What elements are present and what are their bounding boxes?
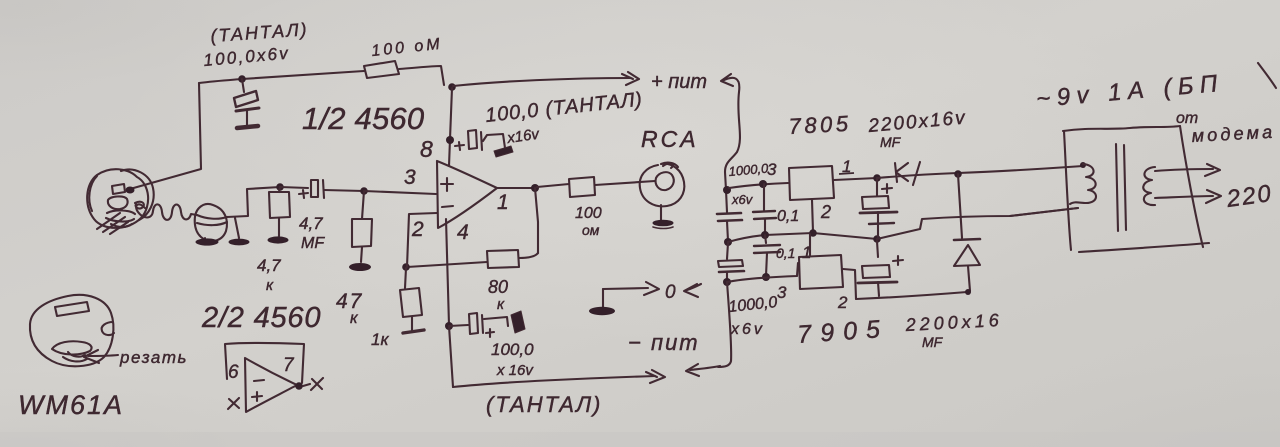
svg-text:100: 100 xyxy=(575,205,602,222)
svg-text:100,0: 100,0 xyxy=(491,340,534,359)
wire: left rail down to mic xyxy=(130,83,201,189)
svg-text:WM61A: WM61A xyxy=(18,390,124,420)
svg-text:0: 0 xyxy=(665,282,676,303)
capacitor C3 plates xyxy=(468,130,477,149)
mid rail xyxy=(728,233,877,242)
junction node xyxy=(276,183,284,191)
C4 bracket and bar xyxy=(484,317,508,326)
op-amp U1b (2/2 4560) box xyxy=(225,343,304,383)
WM61A side hook xyxy=(102,322,114,335)
capacitor C6 1000,0x6v (lower) plates xyxy=(727,243,728,259)
wire lower rail to 7905 pin3 xyxy=(727,263,798,282)
svg-text:от: от xyxy=(1176,110,1198,127)
ground stem 2 xyxy=(235,218,239,238)
junction node inverting xyxy=(402,263,410,271)
RCA stem and ground xyxy=(660,205,662,220)
resistor R2 4,7k xyxy=(279,187,280,192)
transformer box xyxy=(1064,131,1071,250)
svg-text:резать: резать xyxy=(119,348,188,367)
U1b plus sign xyxy=(252,392,262,401)
diode D1 "K|" on top rail xyxy=(895,163,908,182)
wire: opamp output xyxy=(497,187,533,189)
C4 plus mark xyxy=(486,329,494,337)
7805 pin2 wire down xyxy=(812,200,813,232)
junction node 0,1 top xyxy=(759,180,767,188)
svg-text:1: 1 xyxy=(802,243,811,262)
svg-text:ом: ом xyxy=(582,222,600,238)
left arrow from PSU to -pit rail xyxy=(690,366,720,370)
mic inner contacts xyxy=(112,184,125,194)
wire: input rail to 7805 xyxy=(729,183,788,188)
bottom PSU rail xyxy=(856,292,967,299)
twisted pair squiggle xyxy=(136,204,227,220)
secondary coil xyxy=(1143,167,1155,205)
wire cap to node xyxy=(324,190,364,191)
capacitor C9 2200x16 upper: stem and plus xyxy=(873,174,881,182)
wire: pin4 down to bottom rail xyxy=(446,219,449,325)
primary coil xyxy=(1080,162,1086,168)
mic inner scribble xyxy=(108,196,128,209)
svg-text:(ТАНТАЛ): (ТАНТАЛ) xyxy=(486,392,602,417)
junction node xyxy=(762,273,770,281)
svg-text:1к: 1к xyxy=(371,330,389,349)
wire resistor to RCA xyxy=(595,181,655,185)
stray stroke top right xyxy=(1258,63,1276,88)
wire node up to pin2 xyxy=(407,213,437,267)
regulator U3 7905 box xyxy=(799,255,843,289)
diode D2 vertical xyxy=(958,174,962,238)
svg-text:8: 8 xyxy=(420,136,433,162)
svg-text:к: к xyxy=(497,296,505,313)
svg-text:RCA: RCA xyxy=(641,126,699,152)
svg-text:х6v: х6v xyxy=(730,321,765,338)
wire: pin 8 vertical xyxy=(449,88,452,166)
resistor R1 100 oM (top) xyxy=(364,61,399,78)
resistor R3 47k xyxy=(362,191,364,219)
svg-text:0,1: 0,1 xyxy=(776,245,795,261)
resistor R5 80k xyxy=(487,250,519,268)
svg-text:+ пит: + пит xyxy=(651,71,707,93)
svg-text:МF: МF xyxy=(922,334,944,350)
junction nodes mid rail xyxy=(761,231,769,239)
svg-text:МF: МF xyxy=(301,235,325,252)
svg-text:7: 7 xyxy=(283,355,295,376)
svg-text:7805: 7805 xyxy=(788,111,852,139)
RCA jack outer xyxy=(640,163,685,207)
junction node pin4 rail xyxy=(445,322,453,330)
bottom rail to -pit arrow xyxy=(453,376,655,387)
U1b x mark at output xyxy=(303,384,310,386)
junction node mid rail left xyxy=(724,238,732,246)
resistor R4 100 om xyxy=(569,177,595,197)
C3 bracket to ground xyxy=(483,134,505,148)
PSU left rail upper xyxy=(726,190,727,212)
svg-text:4,7: 4,7 xyxy=(257,256,281,275)
top rail continues to transformer xyxy=(877,166,1083,178)
wire from connector to node xyxy=(227,187,280,217)
op-amp U1 (1/2 4560) triangle xyxy=(437,161,497,228)
WM61A bottom squiggle xyxy=(63,357,87,361)
capacitor C4 plates xyxy=(469,313,478,334)
junction node lower left xyxy=(723,278,731,286)
WM61A lower contact xyxy=(52,341,92,354)
U1b output node xyxy=(295,382,303,390)
svg-text:х 16v: х 16v xyxy=(496,362,534,379)
wire ground to 0 arrow xyxy=(603,288,648,289)
wire: +pit supply with arrow xyxy=(453,78,630,86)
junction node at pin8 rail xyxy=(448,83,456,91)
C10 plates xyxy=(862,265,890,278)
op-amp plus input sign xyxy=(441,178,453,191)
feedback: output down xyxy=(535,188,538,253)
svg-text:2: 2 xyxy=(837,293,848,312)
7905 pin2 wire right-down xyxy=(843,269,856,299)
wire: resistor to corner xyxy=(399,66,444,85)
svg-text:3: 3 xyxy=(777,283,787,302)
svg-text:2/2 4560: 2/2 4560 xyxy=(201,302,321,334)
svg-text:1: 1 xyxy=(497,191,509,214)
microphone capsule (jack) xyxy=(87,169,148,228)
feedback wire corner to resistor xyxy=(519,253,538,258)
capacitor C7 0,1 xyxy=(763,184,765,210)
svg-text:МF: МF xyxy=(880,134,902,150)
wire output to resistor xyxy=(537,184,569,187)
capacitor C10 2200x16 lower: stem and plus xyxy=(877,241,878,257)
RCA jack inner xyxy=(656,172,674,190)
7805 output wire xyxy=(834,178,877,180)
mid rail right with step xyxy=(877,208,1078,239)
rezat arrow into mic xyxy=(88,355,118,356)
wire: left rail down and to -pit arrow xyxy=(718,282,731,367)
capacitor C2 4,7MF plus sign xyxy=(299,190,308,198)
transformer core lines xyxy=(1116,144,1118,231)
junction node xyxy=(360,187,368,195)
ground symbol mid (0V) xyxy=(602,289,604,307)
svg-text:х6v: х6v xyxy=(731,192,754,207)
resistor R6 1k xyxy=(405,268,406,288)
svg-text:6: 6 xyxy=(228,362,239,383)
WM61A top contact rectangle xyxy=(55,302,89,316)
junction node pin8 xyxy=(446,136,454,144)
svg-text:2: 2 xyxy=(411,218,424,241)
capacitor C5 1000,0x6v plates xyxy=(717,213,741,214)
WM61A mic body circle xyxy=(30,295,113,366)
capacitor C8 0,1 (lower) xyxy=(765,235,766,243)
svg-text:4,7: 4,7 xyxy=(299,214,323,233)
wire node to opamp pin3 xyxy=(364,191,436,194)
svg-text:− пит: − пит xyxy=(628,330,700,355)
primary input wires xyxy=(1010,208,1078,216)
C9 plates xyxy=(862,196,889,209)
wire: V+ rail top-left segment xyxy=(199,71,364,83)
svg-text:80: 80 xyxy=(488,277,508,297)
svg-text:0,1: 0,1 xyxy=(777,208,799,225)
wire resistor to node xyxy=(407,262,487,267)
junction node diode top xyxy=(954,170,962,178)
capacitor C1 100,0x6v (polarized) xyxy=(238,75,246,83)
capacitor C4 100,0x16 at pin4: wire xyxy=(449,325,468,326)
7905 pin1 wire up xyxy=(809,234,811,255)
op-amp U1b triangle xyxy=(245,358,297,412)
svg-text:1/2 4560: 1/2 4560 xyxy=(302,101,424,136)
ground bar under oval xyxy=(204,238,206,240)
capacitor C3 at pin 8 (100,0 tantal): plus xyxy=(455,142,464,150)
svg-text:к: к xyxy=(266,277,274,294)
mic hatch strokes xyxy=(97,213,120,229)
junction node output xyxy=(531,184,539,192)
op-amp minus input sign xyxy=(442,206,453,207)
U1b x mark at left input xyxy=(228,398,239,409)
capacitor C2 plates xyxy=(311,180,318,197)
connector oval xyxy=(195,204,227,241)
wire node to cap xyxy=(280,187,308,188)
secondary output wires with arrows xyxy=(1155,169,1213,171)
svg-text:4: 4 xyxy=(457,221,469,244)
arrow from PSU (left) and wire down to PSU left rail xyxy=(721,74,733,86)
svg-text:3: 3 xyxy=(767,160,777,179)
U1b minus sign xyxy=(254,380,264,381)
svg-text:2: 2 xyxy=(820,202,831,222)
regulator U2 7805 box xyxy=(789,166,834,200)
left arrow after 0 xyxy=(687,284,701,290)
svg-text:3: 3 xyxy=(404,166,416,189)
junction node PSU in top xyxy=(723,186,731,194)
